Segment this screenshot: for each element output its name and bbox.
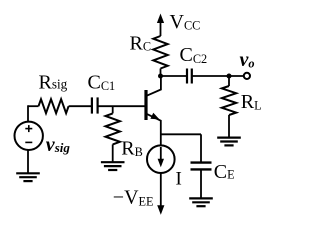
svg-text:I: I (176, 169, 182, 190)
svg-text:RC: RC (130, 32, 152, 54)
svg-text:RB: RB (121, 138, 143, 160)
svg-text:CE: CE (214, 161, 235, 183)
svg-text:CC1: CC1 (88, 72, 116, 94)
svg-text:RL: RL (241, 91, 262, 113)
svg-text:Rsig: Rsig (39, 72, 68, 94)
svg-text:−VEE: −VEE (113, 187, 154, 209)
svg-text:CC2: CC2 (180, 44, 208, 66)
svg-text:VCC: VCC (170, 11, 201, 33)
svg-text:vo: vo (240, 49, 255, 71)
svg-text:vsig: vsig (46, 134, 71, 156)
